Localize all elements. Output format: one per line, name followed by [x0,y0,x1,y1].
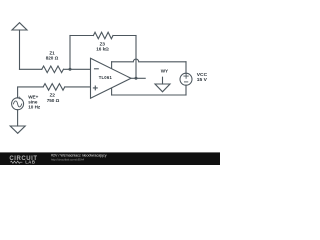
wire node minus-row left [20,68,42,70]
wire Z2 to op-amp plus input [65,86,91,88]
footer bar [0,152,220,165]
svg-text:820 Ω: 820 Ω [46,56,59,61]
wire VCC bottom terminal [185,85,187,95]
op-amp minus marker [95,68,99,70]
wire Z1 to op-amp minus input [64,68,91,70]
wire feedback top left [70,35,93,37]
wire feedback vertical right [135,36,137,79]
voltage source V2 sine WE+ [12,97,24,110]
wire VCC top terminal [185,62,187,74]
ground (rotated up) top-left [12,23,27,70]
voltage source VCC [180,73,192,85]
op-amp U1 TL061 triangle [91,58,132,98]
svg-text:WY: WY [161,69,168,74]
wire V- stub [111,88,113,95]
resistor Z1 [42,66,64,73]
wire V+ stub [111,62,113,69]
wire V+ rail with hop over feedback [112,59,186,62]
svg-text:16 kΩ: 16 kΩ [96,47,109,52]
wire V- rail [112,94,186,96]
footer logo CIRCUIT LAB [9,156,37,165]
wire sine source bottom [17,110,19,126]
wire output [131,77,145,79]
ground WY [155,77,170,92]
svg-text:10 Hz: 10 Hz [28,105,41,110]
ground below sine source [10,126,25,133]
svg-text:LAB: LAB [25,160,35,165]
op-amp plus marker [93,86,97,90]
wire sine source top to Z2 [18,87,44,98]
wire feedback top right [113,35,136,37]
svg-text:TL061: TL061 [99,75,113,80]
junction node at Z1/feedback [69,68,72,71]
svg-text:sine: sine [28,99,38,104]
svg-text:Z2: Z2 [50,93,56,98]
resistor Z2 [43,84,65,91]
svg-text:15 V: 15 V [197,77,208,83]
wire feedback vertical left [69,36,71,70]
svg-text:Z1: Z1 [49,50,55,55]
svg-text:VCC: VCC [197,72,208,78]
resistor Z3 [93,32,113,39]
junction node at output/feedback [135,77,138,80]
svg-text:750 Ω: 750 Ω [47,98,60,103]
svg-text:http://circuitlab.com/c65h4: http://circuitlab.com/c65h4 [51,157,84,161]
